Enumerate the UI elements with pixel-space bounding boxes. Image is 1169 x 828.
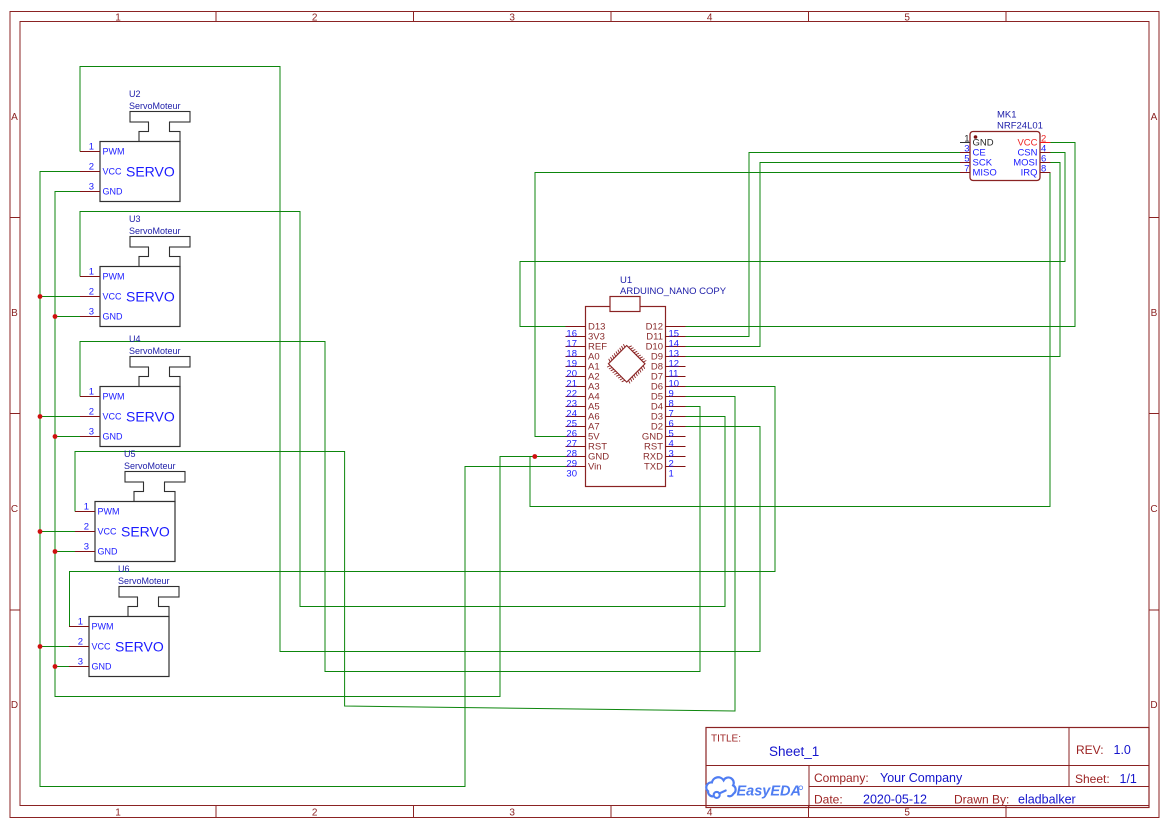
svg-text:1: 1 xyxy=(89,142,94,153)
wire GND branch U5 xyxy=(55,551,75,553)
servo motor U3 xyxy=(80,214,190,327)
svg-text:A: A xyxy=(11,112,18,123)
svg-text:U3: U3 xyxy=(129,214,141,224)
servo motor U2 xyxy=(80,89,190,202)
svg-text:4: 4 xyxy=(707,13,713,24)
svg-text:1: 1 xyxy=(89,267,94,278)
MK1 pin 5 SCK xyxy=(960,162,970,164)
servo motor U4 xyxy=(80,334,190,447)
U4 pin 3 GND xyxy=(80,436,100,438)
svg-text:eladbalker: eladbalker xyxy=(1018,793,1076,807)
U5 pin 2 VCC xyxy=(75,531,95,533)
U4 horn xyxy=(130,357,190,368)
U6 pin 3 GND xyxy=(69,666,89,668)
junction xyxy=(532,454,537,459)
svg-text:TXD: TXD xyxy=(644,462,663,473)
U4 pin 1 PWM xyxy=(80,396,100,398)
U6 pin 2 VCC xyxy=(69,646,89,648)
svg-text:Sheet_1: Sheet_1 xyxy=(769,744,819,759)
svg-text:5: 5 xyxy=(904,13,910,24)
wire U5 PWM to U1 D5 xyxy=(75,397,735,712)
svg-text:ServoMoteur: ServoMoteur xyxy=(129,346,181,356)
svg-text:B: B xyxy=(11,308,18,319)
svg-text:Drawn By:: Drawn By: xyxy=(954,793,1009,807)
wire U3 PWM to U1 D3 xyxy=(80,212,725,607)
wire VCC branch U3 xyxy=(40,296,80,298)
wire U1 D13 to MK1 CSN xyxy=(520,153,1065,327)
junction xyxy=(38,294,43,299)
frame row ticks left xyxy=(10,218,20,611)
svg-text:1: 1 xyxy=(669,469,674,480)
wire U1 5V to MK1 MISO xyxy=(535,173,960,437)
servo motor U6 xyxy=(69,564,179,677)
wire GND branch U4 xyxy=(55,436,80,438)
svg-text:4: 4 xyxy=(707,808,713,819)
svg-text:PWM: PWM xyxy=(103,272,125,282)
svg-text:Company:: Company: xyxy=(814,771,869,785)
svg-text:IRQ: IRQ xyxy=(1021,168,1038,179)
U6 pin 1 PWM xyxy=(69,626,89,628)
svg-text:2: 2 xyxy=(84,522,89,533)
U5 horn xyxy=(125,472,185,483)
svg-text:PWM: PWM xyxy=(103,147,125,157)
MK1 pin 8 IRQ xyxy=(1040,172,1051,174)
svg-text:A: A xyxy=(1151,112,1158,123)
svg-text:GND: GND xyxy=(103,432,124,442)
U1 left pin numbers 16-30 xyxy=(566,329,577,480)
U5 pin 3 GND xyxy=(75,551,95,553)
svg-text:5: 5 xyxy=(904,808,910,819)
svg-text:C: C xyxy=(1150,504,1157,515)
junction xyxy=(38,529,43,534)
MK1 pin 7 MISO xyxy=(960,172,970,174)
frame column ticks top xyxy=(216,12,1006,22)
svg-text:2: 2 xyxy=(78,637,83,648)
U1 body xyxy=(586,307,666,487)
svg-text:EasyEDA: EasyEDA xyxy=(737,784,801,800)
title block xyxy=(706,728,1149,808)
svg-text:3: 3 xyxy=(89,182,94,193)
svg-text:1.0: 1.0 xyxy=(1114,743,1131,757)
U2 pin 1 PWM xyxy=(80,151,100,153)
svg-text:ServoMoteur: ServoMoteur xyxy=(129,101,181,111)
svg-text:2: 2 xyxy=(312,808,318,819)
svg-text:2: 2 xyxy=(89,407,94,418)
svg-text:2020-05-12: 2020-05-12 xyxy=(863,793,927,807)
junction xyxy=(53,314,58,319)
wire VCC branch U4 xyxy=(40,416,80,418)
wire U4 PWM to U1 D4 xyxy=(80,342,700,672)
svg-text:D: D xyxy=(1150,700,1157,711)
EasyEDA logo xyxy=(706,777,802,799)
U4 pin 2 VCC xyxy=(80,416,100,418)
U1 right pin stubs (pins 1-15) xyxy=(666,327,686,467)
U1 usb tab xyxy=(610,297,640,312)
U5 body xyxy=(95,502,175,562)
svg-text:VCC: VCC xyxy=(103,292,123,302)
svg-text:3: 3 xyxy=(509,13,515,24)
wire net GND: servo GND rail to U1 GND xyxy=(55,192,566,697)
U1 left pin names xyxy=(588,322,609,473)
svg-text:TITLE:: TITLE: xyxy=(711,734,741,745)
svg-text:GND: GND xyxy=(92,662,113,672)
U4 body xyxy=(100,387,180,447)
MK1 pin 4 CSN xyxy=(1040,152,1051,154)
svg-text:2: 2 xyxy=(89,287,94,298)
svg-text:U1: U1 xyxy=(620,275,632,286)
U3 pin 3 GND xyxy=(80,316,100,318)
svg-text:30: 30 xyxy=(566,469,577,480)
U1 left pin stubs (pins 16-30) xyxy=(566,327,586,467)
svg-text:NRF24L01: NRF24L01 xyxy=(997,121,1043,132)
svg-text:U6: U6 xyxy=(118,564,130,574)
frame column numbers top xyxy=(115,13,910,24)
frame row letters right xyxy=(1150,112,1157,711)
MK1 pin 2 VCC xyxy=(1040,142,1051,144)
junction xyxy=(53,664,58,669)
svg-text:SERVO: SERVO xyxy=(121,524,170,540)
svg-text:GND: GND xyxy=(103,312,124,322)
frame column numbers bottom xyxy=(115,808,910,819)
U3 horn xyxy=(130,237,190,248)
wire GND branch U6 xyxy=(55,666,69,668)
MK1 pin 6 MOSI xyxy=(1040,162,1051,164)
svg-text:3: 3 xyxy=(89,427,94,438)
svg-text:ARDUINO_NANO COPY: ARDUINO_NANO COPY xyxy=(620,286,727,297)
U6 horn xyxy=(119,587,179,598)
servo motor U5 xyxy=(75,449,185,562)
svg-text:Sheet:: Sheet: xyxy=(1075,772,1110,786)
svg-text:SERVO: SERVO xyxy=(126,289,175,305)
svg-text:3: 3 xyxy=(509,808,515,819)
U5 pin 1 PWM xyxy=(75,511,95,513)
svg-text:VCC: VCC xyxy=(98,527,118,537)
wire U1 D9 to MK1 MOSI xyxy=(686,163,1061,357)
U2 horn xyxy=(130,112,190,123)
svg-text:ServoMoteur: ServoMoteur xyxy=(118,576,170,586)
microcontroller U1 ARDUINO_NANO COPY xyxy=(566,275,727,487)
svg-text:Vin: Vin xyxy=(588,462,602,473)
svg-text:1: 1 xyxy=(115,808,121,819)
svg-text:3: 3 xyxy=(78,657,83,668)
junction xyxy=(38,644,43,649)
svg-text:REV:: REV: xyxy=(1076,743,1104,757)
MK1 pin 3 CE xyxy=(960,152,970,154)
wire VCC branch U6 xyxy=(40,646,69,648)
svg-text:U2: U2 xyxy=(129,89,141,99)
svg-text:2: 2 xyxy=(312,13,318,24)
svg-text:Your Company: Your Company xyxy=(880,771,963,785)
svg-text:GND: GND xyxy=(103,187,124,197)
wire U1 D12 to MK1 VCC xyxy=(686,143,1076,327)
MK1 body xyxy=(970,132,1040,181)
U2 body xyxy=(100,142,180,202)
U1 chip die glyph xyxy=(608,346,645,383)
U3 body xyxy=(100,267,180,327)
svg-text:D: D xyxy=(11,700,18,711)
wire net VCC: servo VCC rail to U1 Vin xyxy=(40,172,566,787)
wire GND branch U3 xyxy=(55,316,80,318)
MK1 pin 1 GND xyxy=(960,142,970,144)
svg-text:1: 1 xyxy=(84,502,89,513)
junction xyxy=(53,434,58,439)
frame row letters left xyxy=(11,112,18,711)
svg-text:PWM: PWM xyxy=(103,392,125,402)
svg-text:VCC: VCC xyxy=(103,167,123,177)
svg-text:MK1: MK1 xyxy=(997,110,1017,121)
svg-text:1: 1 xyxy=(78,617,83,628)
svg-text:C: C xyxy=(11,504,18,515)
svg-text:3: 3 xyxy=(84,542,89,553)
wire U1 D10 to MK1 SCK xyxy=(686,163,961,347)
svg-text:1: 1 xyxy=(89,387,94,398)
svg-text:1/1: 1/1 xyxy=(1120,772,1137,786)
U2 pin 3 GND xyxy=(80,191,100,193)
U3 pin 1 PWM xyxy=(80,276,100,278)
wire U1 D11 to MK1 CE xyxy=(686,153,961,337)
svg-text:U4: U4 xyxy=(129,334,141,344)
svg-text:ServoMoteur: ServoMoteur xyxy=(129,226,181,236)
MK1 pin 1 orientation dot xyxy=(974,135,978,139)
svg-text:Date:: Date: xyxy=(814,793,843,807)
svg-text:8: 8 xyxy=(1041,164,1046,175)
svg-text:7: 7 xyxy=(964,164,969,175)
junction xyxy=(53,549,58,554)
frame row ticks right xyxy=(1149,218,1159,611)
wire VCC branch U5 xyxy=(40,531,75,533)
U2 pin 2 VCC xyxy=(80,171,100,173)
svg-text:PWM: PWM xyxy=(92,622,114,632)
svg-text:U5: U5 xyxy=(124,449,136,459)
U3 pin 2 VCC xyxy=(80,296,100,298)
svg-text:3: 3 xyxy=(89,307,94,318)
svg-text:2: 2 xyxy=(89,162,94,173)
svg-text:VCC: VCC xyxy=(103,412,123,422)
svg-text:SERVO: SERVO xyxy=(115,639,164,655)
svg-text:GND: GND xyxy=(98,547,119,557)
svg-text:1: 1 xyxy=(115,13,121,24)
junction xyxy=(38,414,43,419)
wire U6 PWM to U1 D6 xyxy=(70,387,776,627)
U6 body xyxy=(89,617,169,677)
svg-text:ServoMoteur: ServoMoteur xyxy=(124,461,176,471)
svg-text:B: B xyxy=(1151,308,1158,319)
svg-text:PWM: PWM xyxy=(98,507,120,517)
frame column ticks bottom xyxy=(216,806,1006,818)
RF module MK1 NRF24L01 xyxy=(960,110,1051,181)
U1 right pin numbers 15-1 xyxy=(669,329,680,480)
wire GND branch to MK1 IRQ xyxy=(530,173,1051,507)
wire U2 PWM to U1 D2 xyxy=(80,67,760,652)
svg-text:SERVO: SERVO xyxy=(126,409,175,425)
svg-text:SERVO: SERVO xyxy=(126,164,175,180)
svg-text:VCC: VCC xyxy=(92,642,112,652)
svg-text:MISO: MISO xyxy=(973,168,997,179)
U1 right pin names xyxy=(642,322,663,473)
